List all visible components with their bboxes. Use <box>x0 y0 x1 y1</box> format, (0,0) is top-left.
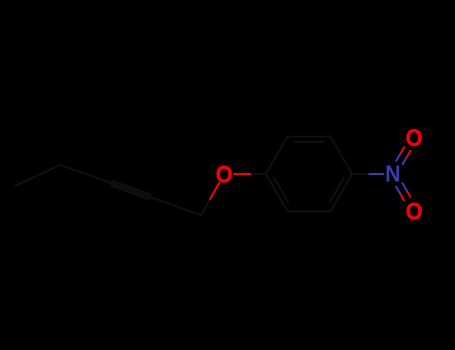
svg-text:O: O <box>406 124 423 151</box>
svg-text:O: O <box>216 160 233 187</box>
svg-text:N: N <box>385 161 400 187</box>
svg-text:O: O <box>406 197 423 224</box>
